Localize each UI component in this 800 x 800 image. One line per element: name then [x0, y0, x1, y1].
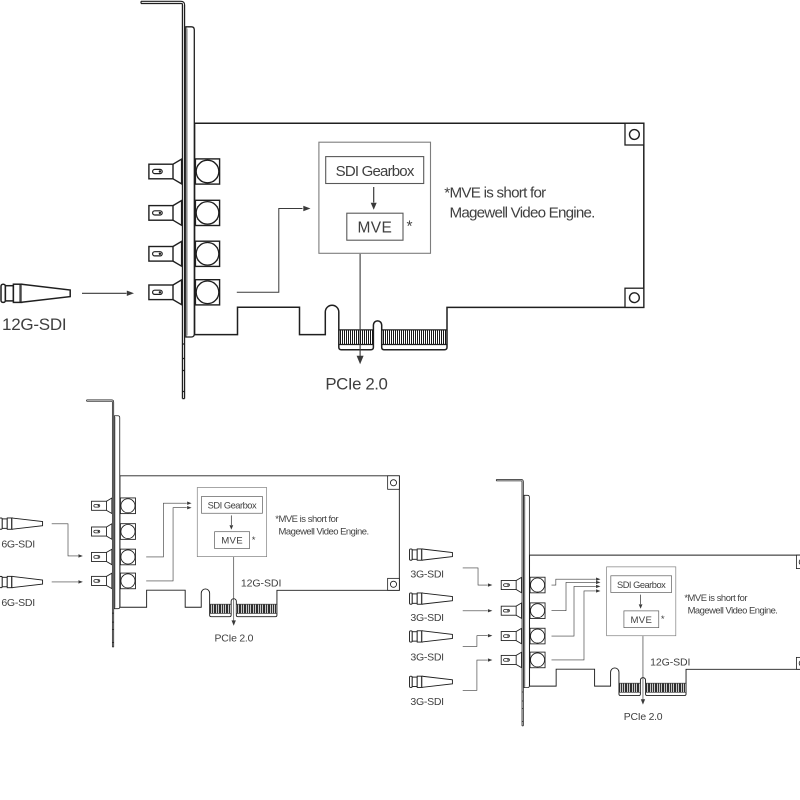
- svg-text:3G-SDI: 3G-SDI: [410, 612, 443, 624]
- svg-text:PCIe 2.0: PCIe 2.0: [325, 375, 387, 394]
- svg-text:6G-SDI: 6G-SDI: [1, 538, 35, 550]
- svg-text:12G-SDI: 12G-SDI: [2, 315, 66, 334]
- svg-text:3G-SDI: 3G-SDI: [410, 569, 443, 581]
- svg-text:3G-SDI: 3G-SDI: [410, 651, 443, 663]
- svg-text:6G-SDI: 6G-SDI: [1, 597, 35, 609]
- svg-text:3G-SDI: 3G-SDI: [410, 696, 443, 708]
